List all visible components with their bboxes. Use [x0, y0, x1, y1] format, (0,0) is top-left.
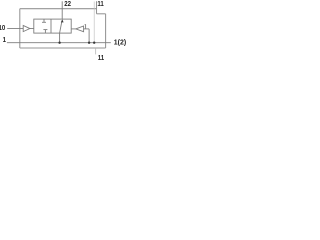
svg-text:1(2): 1(2) [114, 38, 126, 46]
wire check valve to drop [84, 28, 90, 30]
valve flow arrowhead [61, 19, 64, 22]
valve flow path diagonal [60, 21, 62, 33]
wire valve right port to check valve [71, 28, 76, 30]
node junction dot check valve drop [88, 42, 90, 44]
wire pilot to valve [30, 28, 34, 30]
wire check valve drop to bus [88, 29, 90, 43]
wire port 10 pilot line [7, 28, 23, 30]
check valve triangle [76, 26, 84, 32]
blocked port top stem [43, 19, 45, 22]
blocked port bottom bar [43, 29, 47, 31]
wire valve bottom port to bus [59, 33, 61, 43]
check valve seat bar top nub [85, 24, 86, 26]
enclosure notch horizontal [97, 13, 106, 15]
svg-text:11: 11 [98, 55, 105, 63]
enclosure top edge [20, 8, 97, 10]
svg-text:10: 10 [0, 24, 6, 32]
svg-text:1: 1 [3, 37, 7, 45]
blocked port bottom stem [44, 30, 46, 33]
check valve seat bar [85, 24, 87, 29]
bus line 1 to 1(2) [7, 42, 111, 44]
svg-text:11: 11 [97, 0, 104, 8]
enclosure left edge [19, 9, 21, 48]
enclosure right edge [105, 14, 107, 48]
enclosure notch vertical / port 11 stub [96, 1, 98, 14]
enclosure bottom edge [20, 47, 106, 49]
wire port 22 [61, 1, 63, 19]
wire port 11 bottom stub (faint) [95, 48, 97, 54]
svg-text:22: 22 [64, 0, 71, 8]
node junction dot port 11 drop [93, 42, 95, 44]
pilot triangle [23, 26, 30, 32]
valve divider [50, 19, 52, 33]
valve body box [34, 19, 71, 33]
blocked port top bar [42, 21, 46, 23]
node junction dot valve drop [58, 42, 60, 44]
wire port 11 top to bus (faint) [93, 2, 95, 43]
